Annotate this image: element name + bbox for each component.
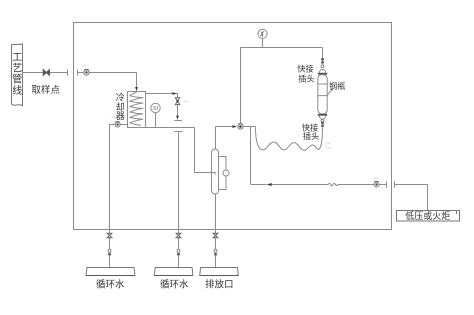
svg-text:管: 管: [12, 73, 22, 86]
svg-text:V3: V3: [184, 99, 190, 104]
svg-text:工: 工: [12, 52, 22, 63]
svg-text:排放口: 排放口: [205, 279, 234, 291]
svg-text:V1: V1: [82, 63, 88, 68]
svg-text:器: 器: [116, 111, 125, 121]
svg-text:取样点: 取样点: [32, 84, 61, 96]
svg-text:插头: 插头: [303, 131, 319, 141]
svg-text:V4: V4: [374, 176, 380, 181]
svg-text:快接: 快接: [297, 64, 313, 74]
svg-text:低压或火炬: 低压或火炬: [405, 210, 450, 221]
svg-text:艺: 艺: [12, 62, 22, 74]
svg-text:钢瓶: 钢瓶: [329, 81, 345, 91]
svg-text:循环水: 循环水: [96, 279, 125, 291]
svg-text:V2: V2: [112, 115, 118, 120]
svg-text:插头: 插头: [298, 74, 314, 84]
svg-text:SI: SI: [153, 106, 158, 112]
svg-text:循环水: 循环水: [160, 279, 189, 291]
svg-text:线: 线: [12, 84, 22, 97]
svg-text:1/4: 1/4: [326, 145, 332, 150]
svg-text:快接: 快接: [302, 123, 318, 133]
